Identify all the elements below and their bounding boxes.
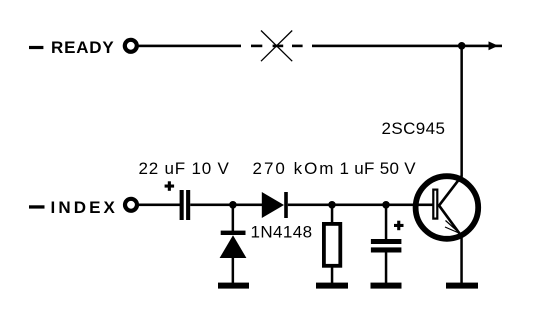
wire D1 to ground [232,257,235,283]
wire R1 to ground [331,267,334,284]
ground under C2 [371,283,402,289]
transistor Q1 base bar [433,190,437,219]
X mark (cut symbol) over dashed break [261,31,292,62]
terminal INDEX (open circle) [125,199,137,211]
diode D2 series (triangle) [262,192,284,218]
wire C1 to D2 [190,204,262,207]
label 1 uF 50 V [340,159,417,178]
ground under Q1 emitter [446,283,478,289]
label 270 kOm [253,159,336,178]
wire collector vertical [460,46,463,177]
label 1N4148 [251,222,313,241]
wire INDEX to C1 [139,204,181,207]
wire node B down to R1 [331,205,334,223]
svg-text:READY: READY [51,38,115,57]
transistor Q1 collector stroke [439,176,462,206]
node READY label [29,38,115,57]
ground under R1 [316,283,348,289]
polarity plus of C1 [165,181,175,191]
label 2SC945 [382,119,446,138]
node INDEX label [29,198,118,217]
wire emitter vertical to ground [460,236,463,283]
wire node C down to C2 [385,205,388,240]
transistor Q1 emitter arrow barbs [445,221,460,234]
wire C2 to ground [385,252,388,283]
polarity plus of C2 [394,221,404,231]
junction dot node C [382,201,390,209]
terminal READY (open circle) [125,40,137,52]
wire base from node C to Q1 [386,204,433,207]
svg-text:22 uF 10 V: 22 uF 10 V [139,159,230,178]
wire READY horizontal right segment [312,45,502,48]
diode D2 series (cathode bar) [284,192,288,218]
transistor Q1 emitter stroke [439,205,462,236]
arrow output right [489,41,499,50]
capacitor C2 1uF plates [371,239,402,253]
wire READY horizontal left segment [139,45,242,48]
junction dot READY/collector [458,42,466,50]
ground under D1 [218,283,249,289]
wire node A down to D1 [232,205,235,232]
svg-text:270 kOm: 270 kOm [253,159,336,178]
wire READY dashed break segment [251,45,303,48]
label 22 uF 10 V [139,159,230,178]
diode D1 1N4148 shunt (triangle) [220,235,247,258]
svg-text:INDEX: INDEX [51,198,118,217]
diode D1 1N4148 shunt (cathode bar) [221,231,246,235]
capacitor C1 22uF plates [180,190,191,220]
junction dot node B [328,201,336,209]
wire D2 to node B [288,204,388,207]
svg-text:1N4148: 1N4148 [251,222,313,241]
svg-text:1 uF 50 V: 1 uF 50 V [340,159,417,178]
transistor Q1 2SC945 circle [416,176,479,239]
svg-text:2SC945: 2SC945 [382,119,446,138]
junction dot node A [229,201,237,209]
resistor R1 270k body [324,224,340,266]
